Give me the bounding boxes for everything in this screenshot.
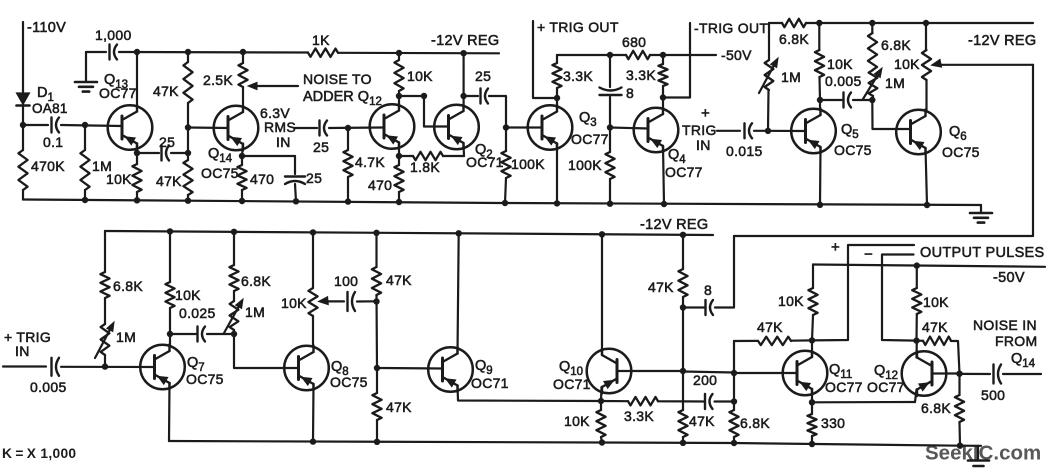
- label NOISE TO: [303, 71, 372, 87]
- label FROM: [995, 333, 1037, 349]
- wire Q13 emitter: [136, 144, 138, 154]
- label 470 (Q1): [368, 177, 392, 193]
- wire 47K middle: [375, 295, 378, 368]
- capacitor 0.005 (trig in): [52, 358, 60, 376]
- wire 6.8K top lead (Q8): [233, 232, 235, 265]
- svg-text:OC71: OC71: [466, 154, 504, 170]
- wire cap8 to Q4 base: [610, 97, 648, 129]
- wire 47K lower lead (Q10): [682, 437, 684, 443]
- label IN (row2): [15, 343, 30, 359]
- wire 10K leads (Q10): [601, 401, 602, 443]
- label 4.7K: [355, 154, 385, 170]
- wire Q12 base: [932, 372, 960, 374]
- label 470 (Q14): [250, 171, 274, 187]
- junction dot Q5 collector node: [817, 97, 823, 103]
- wire 10K pot top lead: [925, 23, 927, 50]
- resistor 6.8K (Q7): [100, 272, 109, 298]
- svg-text:25: 25: [306, 170, 322, 186]
- resistor 470 (Q14 emitter): [237, 165, 246, 190]
- wire Q12 emitter: [915, 390, 917, 403]
- svg-text:100: 100: [334, 273, 358, 289]
- svg-text:100K: 100K: [568, 157, 602, 173]
- svg-text:6.8K: 6.8K: [921, 400, 951, 416]
- junction dot Q5 base node: [765, 128, 771, 134]
- wire 1M pot to base node: [104, 355, 106, 367]
- label 1M: [92, 158, 112, 174]
- wire Q9 emitter: [458, 386, 602, 402]
- label 6.3V: [260, 105, 290, 121]
- svg-text:100K: 100K: [511, 156, 545, 172]
- svg-text:47K: 47K: [689, 413, 715, 429]
- wire 100 cap right lead: [357, 300, 377, 302]
- svg-text:0.005: 0.005: [30, 379, 67, 395]
- label 47K (Q10 upper): [648, 279, 674, 295]
- label 6.8K (Q7): [113, 278, 143, 294]
- label -12V REG (row2): [640, 217, 708, 233]
- capacitor 8 (trigger): [600, 88, 622, 96]
- label + TRIG OUT: [537, 19, 619, 35]
- wire 25 cap to Q3 base: [489, 96, 542, 128]
- label 100K (Q3 base): [511, 156, 545, 172]
- label OA81: [32, 101, 68, 116]
- label 330: [821, 415, 845, 431]
- svg-text:47K: 47K: [922, 319, 948, 335]
- junction dot 100cap node: [373, 298, 379, 304]
- wire Q3 collector: [556, 103, 558, 106]
- label 1,000: [95, 27, 132, 43]
- wire 470 leads: [241, 156, 243, 201]
- wire 1M top lead: [84, 125, 86, 150]
- wire 47K column middle: [187, 103, 189, 160]
- label IN (trig in): [696, 137, 711, 153]
- svg-text:500: 500: [981, 387, 1005, 403]
- junction dot Q14 base node: [185, 124, 191, 130]
- wire 1M to 0.005 node: [871, 96, 874, 100]
- wire 47K top lead (row2): [375, 233, 377, 267]
- capacitor 0.025: [198, 327, 206, 342]
- junction dot Q11 emitter node: [809, 399, 815, 405]
- label 47K (Q12 cross): [922, 319, 948, 335]
- resistor 10K (Q1 collector): [394, 60, 403, 91]
- junction dot Q11 collector node: [809, 337, 815, 343]
- wire 6.8K leads (Q11): [733, 402, 735, 444]
- label 10K (Q8 collector): [281, 295, 307, 311]
- capacitor 25 (Q2 collector coupling): [481, 89, 489, 104]
- resistor 47K (Q12 cross): [923, 337, 951, 345]
- label NOISE IN: [973, 317, 1037, 333]
- label 0.1: [43, 134, 63, 150]
- svg-text:OUTPUT PULSES: OUTPUT PULSES: [920, 245, 1045, 261]
- svg-text:OC75: OC75: [186, 371, 224, 387]
- svg-text:OC75: OC75: [330, 374, 368, 390]
- wire 47K column top lead: [187, 52, 189, 62]
- svg-text:-110V: -110V: [27, 20, 66, 36]
- wire 47K cross leads (Q12): [917, 341, 960, 374]
- label Q2: [475, 142, 493, 161]
- label OC77 (Q11): [825, 379, 863, 395]
- svg-text:1M: 1M: [245, 304, 265, 320]
- wire 500 left lead: [960, 373, 991, 375]
- junction dot 25 cap collector node: [460, 93, 466, 99]
- label K=X 1,000: [2, 446, 76, 461]
- svg-text:-12V REG: -12V REG: [640, 217, 708, 233]
- label 47K (upper row2): [386, 272, 412, 288]
- junction dot Q6 base node: [869, 97, 875, 103]
- label 25 (Q2 coupling): [475, 68, 491, 84]
- svg-text:OC77: OC77: [825, 379, 863, 395]
- wire Q14 emitter to 25 bypass cap: [242, 156, 295, 174]
- svg-text:RMS: RMS: [264, 119, 296, 135]
- transistor Q11: [783, 351, 828, 396]
- svg-text:330: 330: [821, 415, 845, 431]
- junction dot Q1 emitter: [396, 153, 402, 159]
- wire Q2 25cap: [467, 95, 478, 97]
- svg-text:+ TRIG OUT: + TRIG OUT: [537, 19, 619, 35]
- wire Q9 base: [377, 367, 443, 370]
- svg-text:1M: 1M: [116, 329, 136, 345]
- wire + output stub: [812, 245, 914, 340]
- resistor 330: [807, 414, 816, 436]
- wire 3.3K leads (Q4): [662, 55, 664, 98]
- resistor 3.3K (Q4 load): [658, 64, 667, 86]
- junction dot Q7 base node: [102, 363, 108, 369]
- resistor 470 (Q1 emitter): [394, 165, 403, 192]
- svg-text:25: 25: [475, 68, 491, 84]
- resistor 4.7K: [343, 150, 352, 177]
- wire Q11 collector: [811, 340, 813, 357]
- potentiometer 1M (Q6 base): [863, 68, 882, 99]
- svg-text:1,000: 1,000: [95, 27, 132, 43]
- junction dot Q10 base node: [680, 368, 686, 374]
- transistor Q7: [140, 345, 185, 390]
- label OC75 (Q7): [186, 371, 224, 387]
- wire 100K leads: [505, 128, 506, 204]
- wire Q14 emitter: [242, 144, 243, 157]
- label -50V (row2): [993, 270, 1025, 286]
- label 47K (upper): [153, 83, 179, 99]
- wire ground rail end: [980, 205, 982, 212]
- svg-text:OC77: OC77: [665, 164, 703, 180]
- wire 0.005 to Q7 base: [61, 366, 155, 368]
- label 470K: [31, 158, 65, 174]
- wire 10K pot to Q8 collector: [312, 316, 314, 346]
- wire trig-in stub: [717, 130, 740, 132]
- wire Q4 emitter: [663, 146, 664, 204]
- label + (trig in): [701, 105, 710, 122]
- label 1M (Q8 base): [245, 304, 265, 320]
- wire 3.3K leads (row2): [601, 400, 683, 403]
- label 500: [981, 387, 1005, 403]
- label 680: [622, 34, 646, 50]
- wire 10K leads (Q12 collector): [915, 266, 917, 341]
- label OC75 (Q14): [201, 165, 239, 181]
- label 200: [693, 372, 717, 388]
- transistor Q12: [902, 351, 947, 396]
- svg-text:-12V REG: -12V REG: [968, 33, 1036, 49]
- wire Q6 base link: [872, 100, 910, 129]
- junction dot 1M top: [82, 122, 88, 128]
- wire 0.005 right lead: [853, 99, 872, 101]
- wire 10K to Q7 collector node: [169, 308, 171, 334]
- transistor Q6: [896, 110, 941, 155]
- svg-text:6.8K: 6.8K: [241, 273, 271, 289]
- wire 0.025 left lead: [170, 333, 197, 335]
- junction dots bus row2: [167, 228, 686, 238]
- resistor 10K (Q11 collector): [808, 288, 817, 315]
- wire ground rail top section: [23, 200, 981, 206]
- wire Q8 emitter: [312, 384, 315, 442]
- svg-text:OC77: OC77: [867, 379, 905, 395]
- wire Q7 collector: [169, 334, 171, 346]
- svg-text:NOISE IN: NOISE IN: [973, 317, 1037, 333]
- label ADDER Q12: [303, 89, 382, 108]
- wire Q1 collector to Q2 base: [399, 96, 449, 127]
- svg-text:1M: 1M: [781, 69, 801, 85]
- junction dot 200cap node: [731, 398, 737, 404]
- resistor 47K (lower row2): [372, 393, 381, 420]
- transistor Q2: [434, 105, 479, 150]
- label OC71 (Q9): [471, 375, 509, 391]
- resistor 100K (Q3 base): [501, 151, 510, 178]
- svg-text:47K: 47K: [386, 399, 412, 415]
- label Q11: [829, 362, 852, 381]
- resistor 6.8K (Q8): [229, 265, 238, 291]
- junction dot 4.7K node: [345, 125, 351, 131]
- resistor 100K (Q4 base): [605, 152, 614, 179]
- label 10K (Q5 collector): [827, 56, 853, 72]
- svg-text:10K: 10K: [564, 413, 590, 429]
- wire Q13 emitter to 25 cap: [137, 152, 159, 154]
- resistor 1.8K: [413, 152, 443, 160]
- label + (output): [831, 239, 840, 256]
- wire 25 cap to 47K column: [171, 152, 188, 154]
- wire Q7 emitter to bottom bus: [168, 383, 171, 441]
- capacitor 0.1: [52, 118, 60, 133]
- wire Q12 collector: [915, 341, 917, 358]
- wiper arrow 10K pot: [932, 59, 1034, 67]
- svg-text:470K: 470K: [31, 158, 65, 174]
- svg-text:10K: 10K: [923, 294, 949, 310]
- label OC77 (Q4): [665, 164, 703, 180]
- junction dot Q9 base node: [374, 365, 380, 371]
- potentiometer 1M (Q8 base): [224, 299, 243, 333]
- label Q9: [475, 358, 493, 377]
- svg-text:-12V REG: -12V REG: [431, 33, 499, 49]
- svg-text:0.005: 0.005: [825, 73, 862, 89]
- svg-text:IN: IN: [15, 343, 30, 359]
- label OC77 (Q12): [867, 379, 905, 395]
- resistor 47K (lower): [183, 160, 192, 195]
- svg-text:47K: 47K: [156, 173, 182, 189]
- label OC75 (Q6): [942, 144, 980, 160]
- svg-text:0.015: 0.015: [726, 143, 763, 159]
- junction dot Q1 collector node: [396, 93, 402, 99]
- wire 6.8K top lead (row2): [104, 231, 106, 272]
- label 10K (Q7 collector): [175, 287, 201, 303]
- wiper arrow 10K (Q8): [319, 297, 345, 305]
- svg-text:-50V: -50V: [721, 47, 752, 63]
- junction dot cap8 node: [607, 52, 613, 58]
- label 10K (Q1): [407, 68, 433, 84]
- label 2.5K: [203, 72, 233, 88]
- wire Q13 collector: [136, 52, 138, 107]
- transistor Q9: [428, 347, 473, 392]
- label 8 (trigger): [626, 85, 634, 101]
- label OC75 (Q8): [330, 374, 368, 390]
- label Q14 (noise source): [1011, 351, 1036, 370]
- junction dot Q7 collector node: [167, 331, 173, 337]
- label 6.8K (Q11 base): [740, 415, 770, 431]
- junction dot 0.025 right node: [231, 331, 237, 337]
- label IN (RMS): [276, 134, 291, 150]
- svg-text:OC71: OC71: [471, 375, 509, 391]
- wire Q2 emitter lead: [462, 144, 465, 157]
- label 0.025: [179, 305, 216, 321]
- wire 10K top lead: [398, 53, 400, 60]
- label OC77 (Q3): [571, 131, 609, 147]
- label 6.8K (Q8): [241, 273, 271, 289]
- wire Q10 collector: [601, 234, 603, 355]
- svg-text:OC77: OC77: [99, 85, 137, 101]
- svg-text:OC75: OC75: [834, 142, 872, 158]
- wire -12V REG bus top: [119, 52, 499, 53]
- wire 100K leads (Q4): [609, 128, 611, 204]
- capacitor 100: [348, 292, 356, 311]
- label -110V: [27, 20, 66, 36]
- transistor Q13: [108, 105, 153, 150]
- junction dots on ground rail: [82, 197, 930, 208]
- junction dot Q2 base corner: [421, 93, 427, 99]
- junction dots bottom bus: [310, 438, 963, 449]
- svg-text:0.025: 0.025: [179, 305, 216, 321]
- label 0.005 (trig in): [30, 379, 67, 395]
- resistor 6.8K (horizontal): [782, 19, 806, 27]
- wire 0.025 right lead: [207, 333, 234, 335]
- label D1: [37, 85, 54, 104]
- wire 4.7K leads: [347, 128, 349, 202]
- wire Q2 collector: [463, 53, 465, 106]
- label Q4: [668, 147, 686, 166]
- wire Q4 collector: [662, 98, 664, 109]
- wire - output stub: [882, 255, 917, 341]
- node A junction dot: [20, 122, 26, 128]
- label 3.3K (Q4): [626, 67, 656, 83]
- svg-text:1.8K: 1.8K: [410, 159, 440, 175]
- svg-text:200: 200: [693, 372, 717, 388]
- wire 0.1 cap to Q13 base: [61, 125, 122, 126]
- label 0.015: [726, 143, 763, 159]
- svg-text:K = X 1,000: K = X 1,000: [2, 446, 76, 461]
- transistor Q14: [214, 106, 259, 151]
- label 1M (Q7 base): [116, 329, 136, 345]
- wire Q14 base: [188, 126, 228, 129]
- wire 200 left lead: [683, 400, 705, 402]
- label 10K (Q6 collector): [894, 56, 920, 72]
- resistor 6.8K (Q6 base): [868, 33, 877, 70]
- svg-text:FROM: FROM: [995, 333, 1037, 349]
- capacitor 25 (RMS input): [320, 121, 328, 136]
- svg-text:OC75: OC75: [201, 165, 239, 181]
- wire cap8 top lead: [609, 55, 611, 87]
- junction dots top-right bus: [816, 20, 929, 26]
- junction dot Q4 base node: [607, 124, 613, 130]
- wire feedback right edge: [734, 65, 1033, 236]
- wire Q10 base: [617, 370, 683, 372]
- wire top-right bus: [769, 22, 1033, 24]
- label -12V REG (top): [431, 33, 499, 49]
- wire 500 right lead: [1003, 373, 1041, 375]
- diode D1: [17, 93, 30, 106]
- label 100K (Q4 base): [568, 157, 602, 173]
- svg-text:25: 25: [159, 134, 175, 150]
- svg-text:NOISE TO: NOISE TO: [303, 71, 372, 87]
- wire Q11 emitter: [811, 389, 813, 402]
- junction dot Q12 base node: [956, 371, 962, 377]
- resistor 10K (Q12 collector): [912, 288, 921, 314]
- wire 2.5K top lead: [242, 52, 244, 63]
- label Q3: [579, 110, 597, 129]
- capacitor 200: [705, 394, 713, 409]
- wire 0.015 to Q5 base: [754, 130, 806, 132]
- capacitor 1,000: [110, 45, 118, 60]
- wire 10K top lead (Q5): [818, 23, 820, 50]
- svg-text:6.8K: 6.8K: [740, 415, 770, 431]
- junction dot Q10 emitter node: [598, 398, 604, 404]
- transistor Q4: [634, 108, 679, 153]
- label Q14: [208, 146, 233, 165]
- svg-text:0.1: 0.1: [43, 134, 63, 150]
- resistor 47K (Q10 base upper): [678, 269, 687, 297]
- svg-text:OC71: OC71: [553, 376, 591, 392]
- potentiometer 10K (Q6 collector): [922, 50, 931, 80]
- resistor 47K (upper): [183, 62, 192, 103]
- svg-text:1M: 1M: [885, 75, 905, 91]
- label 1.8K: [410, 159, 440, 175]
- svg-text:47K: 47K: [757, 319, 783, 335]
- wire -50V stub (top): [663, 54, 716, 56]
- svg-text:10K: 10K: [778, 293, 804, 309]
- resistor 47K (Q10 base lower): [678, 410, 687, 437]
- wire 25 cap to Q1 base: [329, 126, 384, 129]
- wire Q11 base column: [733, 341, 735, 402]
- wire 1M pot to Q8 base: [234, 330, 299, 368]
- label 8 (feedback): [704, 282, 712, 298]
- resistor 1K: [308, 49, 338, 57]
- svg-text:470: 470: [368, 177, 392, 193]
- wire 6.8K corner to 1M pot: [768, 23, 770, 60]
- label Q13: [104, 72, 128, 91]
- wire bus left end: [86, 51, 106, 53]
- svg-text:47K: 47K: [153, 83, 179, 99]
- label 25 (RMS input): [313, 139, 329, 155]
- label 25 (bypass): [306, 170, 322, 186]
- svg-text:4.7K: 4.7K: [355, 154, 385, 170]
- label RMS: [264, 119, 296, 135]
- wire 47K cross leads (Q11): [734, 339, 812, 342]
- svg-text:+: +: [701, 105, 710, 122]
- label Q10: [559, 359, 583, 378]
- capacitor 8 (feedback): [706, 300, 714, 315]
- label 47K (lower): [156, 173, 182, 189]
- label 1M (Q5 base): [781, 69, 801, 85]
- wire 47K top lead (Q10): [682, 235, 684, 269]
- svg-text:2.5K: 2.5K: [203, 72, 233, 88]
- label 25 (emitter coupling): [159, 134, 175, 150]
- wire 470K to ground rail: [22, 190, 24, 200]
- ground symbol bottom right: [968, 446, 989, 466]
- junction dot cap8b node: [680, 304, 686, 310]
- junction dots on top bus: [134, 49, 467, 57]
